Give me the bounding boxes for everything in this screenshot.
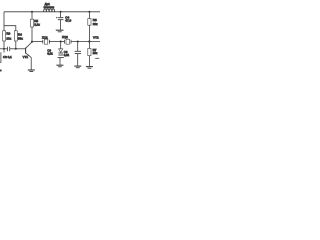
ground C7 bar1 [74, 65, 81, 67]
svg-text:ZQ2: ZQ2 [62, 35, 68, 39]
wire base line right part [10, 48, 25, 50]
ground VT1 bar1 [28, 69, 35, 71]
capacitor C4 plate top [58, 17, 64, 19]
wire C4 stem [60, 12, 62, 18]
wire emitter down [30, 57, 32, 69]
varicap VD1 triangle [59, 49, 63, 53]
ground varicap bar1 [56, 64, 63, 66]
junction dot R8 rail [88, 11, 90, 13]
junction dot collector node [31, 41, 33, 43]
wire R5 bottom to collector node [31, 27, 33, 42]
crystal ZQ2 right plate [70, 40, 72, 44]
transistor VT1 base bar [25, 48, 27, 54]
ground R7 bar2 [88, 67, 92, 69]
ground C4 bar2 [58, 31, 62, 33]
wire R8 bottom to output wire [88, 25, 90, 41]
crystal ZQ1 right plate [48, 40, 50, 44]
wire R7 to ground [88, 56, 90, 67]
inductor L1 core bar [43, 6, 54, 8]
wire R5 stem from rail [31, 12, 33, 19]
varicap VD1 stem [60, 42, 62, 49]
wire C4 to ground [60, 20, 62, 30]
wire R3 bottom to base wire [3, 41, 5, 49]
svg-text:2,2к: 2,2к [34, 22, 40, 26]
resistor R3 [3, 31, 6, 41]
wire stub below base node [3, 49, 5, 53]
wire varicap to ground [59, 58, 61, 65]
junction dot base R4 [15, 48, 17, 50]
wire R4 bottom to base wire [15, 41, 17, 49]
svg-text:0,01: 0,01 [64, 53, 70, 57]
wire branch to R4 [4, 26, 16, 31]
wire collector node to ZQ1 [32, 41, 43, 43]
varicap VD1 cathode bar [58, 52, 63, 54]
wire input base line left part [0, 48, 7, 50]
junction dot C4 rail [60, 11, 62, 13]
varicap VD1 cap plate [58, 54, 63, 56]
svg-text:47,0: 47,0 [65, 19, 71, 23]
svg-text:0,01: 0,01 [47, 52, 53, 56]
svg-text:56к: 56к [18, 36, 23, 40]
svg-text:R3: R3 [6, 32, 10, 36]
wire left edge remnant vertical [0, 52, 2, 62]
wire left column from rail to R3 [3, 12, 5, 31]
ground VT1 bar2 [29, 71, 33, 73]
wire R8 stem [88, 12, 90, 19]
junction dot R8 bottom node [88, 40, 90, 42]
ground varicap bar2 [58, 66, 62, 68]
wire C7 stem top [77, 42, 79, 52]
svg-text:VT2: VT2 [93, 35, 99, 39]
wire right edge stub [95, 57, 99, 59]
resistor R8 [88, 19, 91, 26]
capacitor C3 plate right [9, 47, 11, 52]
crystal ZQ2 left plate [63, 40, 65, 44]
wire left edge remnant bottom [0, 70, 2, 72]
svg-text:Др1: Др1 [45, 2, 51, 6]
junction dot R5 rail [31, 11, 33, 13]
wire C7 stem bottom [77, 54, 79, 66]
wire R7 stem [88, 42, 90, 49]
capacitor C7 plate top [75, 50, 81, 52]
junction dot base R3 [3, 48, 5, 50]
inductor L1 winding bumps [44, 9, 55, 12]
svg-text:10к: 10к [6, 36, 11, 40]
wire top rail [4, 11, 100, 13]
resistor R5 [31, 19, 34, 27]
ground R7 bar1 [86, 66, 93, 68]
capacitor C4 plate bottom [58, 19, 64, 21]
transistor VT1 collector line [26, 42, 32, 48]
svg-text:22к: 22к [93, 22, 98, 26]
resistor R4 [14, 31, 17, 41]
junction dot C7 node [77, 40, 79, 42]
crystal ZQ1 body [44, 39, 47, 44]
svg-text:10к: 10к [93, 51, 98, 55]
crystal ZQ2 body [66, 39, 69, 44]
transistor VT1 emitter arrowhead [28, 55, 30, 57]
wire ZQ2 to right edge [71, 41, 100, 43]
junction dot varicap node [60, 40, 62, 42]
capacitor C3 plate left [7, 47, 9, 52]
ground C4 bar1 [56, 29, 64, 31]
svg-text:C3 0,1: C3 0,1 [3, 55, 12, 59]
crystal ZQ1 left plate [42, 40, 44, 44]
ground C7 bar2 [76, 67, 80, 69]
polarity plus C4 [56, 17, 58, 19]
resistor R7 [88, 48, 91, 55]
capacitor C7 plate bottom [75, 53, 81, 55]
capacitor series plate below varicap [58, 57, 64, 59]
svg-text:ZQ1: ZQ1 [42, 36, 48, 40]
svg-text:VT1: VT1 [23, 55, 29, 59]
wire ZQ1 to ZQ2 [49, 41, 64, 43]
transistor VT1 emitter line with arrow [26, 53, 31, 57]
